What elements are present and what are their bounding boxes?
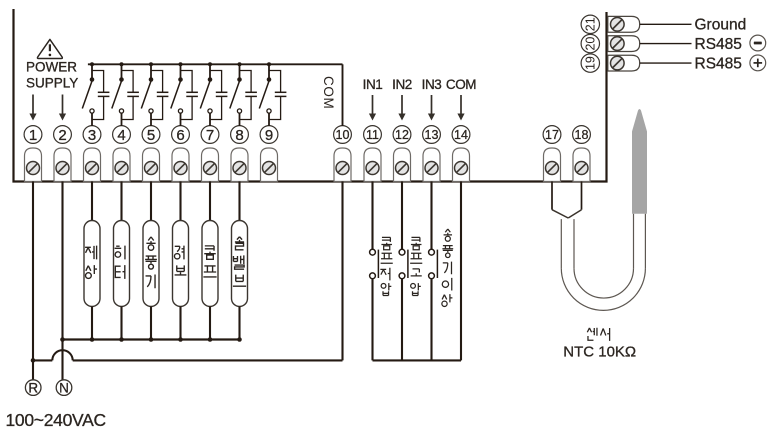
svg-text:21: 21 [584, 17, 598, 31]
svg-text:N: N [59, 381, 69, 396]
svg-text:COM: COM [321, 76, 336, 109]
svg-text:NTC 10KΩ: NTC 10KΩ [563, 344, 636, 361]
svg-text:COM: COM [446, 77, 476, 92]
svg-text:20: 20 [584, 37, 598, 51]
svg-text:POWER: POWER [26, 60, 77, 75]
svg-text:RS485: RS485 [695, 36, 742, 53]
svg-text:13: 13 [425, 128, 439, 142]
svg-text:IN2: IN2 [392, 77, 412, 92]
svg-text:4: 4 [117, 127, 125, 144]
svg-text:12: 12 [395, 128, 409, 142]
svg-text:Ground: Ground [695, 16, 747, 33]
svg-text:10: 10 [336, 128, 350, 142]
svg-text:2: 2 [58, 127, 66, 144]
svg-text:14: 14 [454, 128, 468, 142]
svg-text:18: 18 [575, 128, 589, 142]
svg-text:8: 8 [235, 127, 243, 144]
svg-text:17: 17 [545, 128, 559, 142]
svg-text:3: 3 [88, 127, 96, 144]
svg-text:IN3: IN3 [422, 77, 442, 92]
svg-text:1: 1 [29, 127, 37, 144]
svg-text:R: R [28, 381, 38, 396]
svg-text:5: 5 [147, 127, 155, 144]
svg-text:100~240VAC: 100~240VAC [6, 410, 106, 430]
svg-text:11: 11 [366, 128, 379, 142]
svg-text:19: 19 [584, 56, 598, 70]
svg-text:7: 7 [206, 127, 214, 144]
svg-text:9: 9 [265, 127, 273, 144]
svg-text:6: 6 [176, 127, 184, 144]
svg-text:RS485: RS485 [695, 55, 742, 72]
svg-text:SUPPLY: SUPPLY [26, 76, 78, 91]
svg-text:IN1: IN1 [363, 77, 383, 92]
